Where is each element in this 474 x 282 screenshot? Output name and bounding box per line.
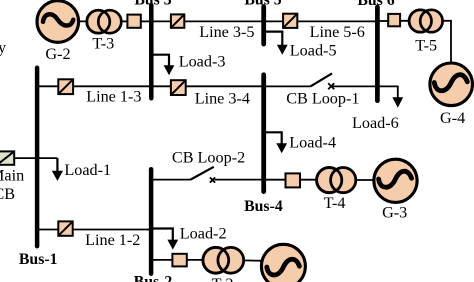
svg-text:Load-6: Load-6 [352, 114, 399, 132]
wire T-3 to square [119, 20, 130, 22]
wire T-2 to G-1 [242, 259, 264, 261]
svg-text:Line 5-6: Line 5-6 [310, 23, 365, 41]
square coupler at T-3 [127, 15, 140, 28]
wire G-2 to T-3 [75, 20, 92, 22]
wire T-4 to G-3 [354, 179, 376, 181]
svg-text:Line 1-2: Line 1-2 [85, 231, 140, 249]
breaker Main CB [0, 151, 14, 164]
svg-text:G-2: G-2 [45, 45, 70, 63]
bus 3 bar [149, 5, 154, 98]
svg-text:Line 1-3: Line 1-3 [86, 88, 141, 106]
square coupler at T-2 [172, 254, 186, 267]
svg-text:Bus-1: Bus-1 [19, 251, 58, 268]
wire CB Loop-2 left stub [152, 179, 191, 181]
svg-text:Bus 3: Bus 3 [134, 0, 171, 9]
square coupler at T-4 [286, 173, 301, 187]
bus 6 bar [375, 7, 380, 101]
wire square to T-2 [185, 259, 206, 261]
wire Bus-4 to square [265, 179, 288, 181]
arrow Load-2 [167, 240, 178, 250]
svg-text:Bus 5: Bus 5 [244, 0, 281, 9]
svg-text:Bus-4: Bus-4 [244, 198, 283, 215]
breaker Line 1-3 [58, 79, 73, 94]
wire T-5 to G-4 [441, 21, 451, 65]
svg-text:CB Loop-2: CB Loop-2 [172, 148, 245, 166]
svg-text:Line 3-5: Line 3-5 [199, 23, 254, 41]
wire Load-4 elbow [265, 132, 282, 144]
svg-text:Load-5: Load-5 [290, 41, 337, 59]
svg-text:Bus 6: Bus 6 [357, 0, 394, 9]
generator G-2 [37, 1, 79, 43]
svg-text:CB: CB [0, 185, 15, 203]
wire Line 3-4 [152, 85, 264, 87]
svg-text:CB Loop-1: CB Loop-1 [286, 90, 359, 108]
transformer T-4 [317, 168, 356, 193]
svg-text:T-3: T-3 [92, 35, 114, 53]
x mark CB Loop-1 [328, 83, 334, 89]
svg-text:Load-2: Load-2 [180, 224, 227, 242]
breaker Line 5-6 [283, 14, 297, 28]
wire CB Loop-2 right [215, 179, 264, 181]
wire Line 1-2 [37, 229, 151, 231]
wire Load-1 stem [56, 158, 58, 171]
arrow Load-1 [52, 171, 63, 181]
wire Line 1-3 [37, 85, 152, 87]
arrow Load-5 [277, 45, 288, 55]
transformer T-2 [203, 247, 244, 273]
bus 2 bar [149, 169, 154, 273]
arrow Load-6 [392, 97, 403, 108]
wire square to Bus 3 [138, 20, 152, 22]
svg-text:T-2: T-2 [212, 275, 234, 282]
svg-text:G-4: G-4 [440, 109, 465, 127]
wire Line 3-5 [152, 20, 264, 22]
svg-text:Line 3-4: Line 3-4 [195, 90, 250, 108]
breaker Line 1-2 [58, 221, 72, 235]
breaker Line 3-5 [171, 14, 184, 27]
breaker Line 3-4 [171, 80, 186, 95]
svg-text:G-3: G-3 [382, 204, 407, 222]
arrow Load-3 [164, 65, 175, 75]
switch blade CB Loop-1 [310, 73, 332, 86]
generator G-3 [374, 159, 417, 202]
generator G-4 [430, 63, 473, 106]
square coupler at T-5 [388, 14, 400, 26]
wire Load-2 elbow [152, 229, 173, 241]
wire Bus 6 to square [376, 20, 392, 22]
svg-text:T-5: T-5 [415, 37, 437, 55]
wire Load-3 elbow [152, 55, 169, 66]
svg-text:Main: Main [0, 166, 24, 184]
bus 5 bar [261, 7, 266, 44]
label Main CB [0, 166, 24, 203]
wire Load-5 elbow [265, 32, 282, 46]
svg-text:Load-1: Load-1 [64, 161, 111, 179]
wire square to T-5 [397, 20, 414, 22]
svg-text:Bus-2: Bus-2 [134, 274, 173, 282]
wire CB Loop-1 right to Load-6 [331, 86, 398, 97]
wire CB Loop-1 left stub [265, 85, 310, 87]
bus 4 bar [261, 75, 266, 192]
wire square to T-4 [299, 179, 319, 181]
generator G-1 [261, 244, 305, 282]
arrow Load-4 [276, 143, 287, 153]
svg-text:Load-3: Load-3 [179, 52, 226, 70]
wire Main CB line [10, 157, 57, 159]
wire Bus-2 to square [152, 259, 174, 261]
svg-text:T-4: T-4 [324, 194, 346, 212]
switch blade CB Loop-2 [191, 167, 214, 180]
svg-text:Load-4: Load-4 [289, 134, 336, 152]
transformer T-5 [409, 10, 443, 32]
x mark CB Loop-2 [210, 177, 215, 182]
transformer T-3 [87, 10, 122, 33]
svg-text:y: y [0, 38, 7, 56]
bus 1 bar [35, 68, 40, 246]
wire Line 5-6 [264, 20, 376, 22]
